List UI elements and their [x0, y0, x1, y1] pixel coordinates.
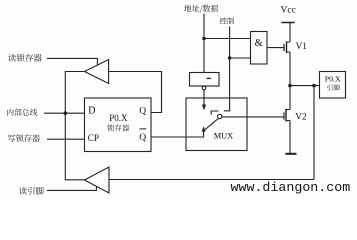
- ground bar: [285, 153, 296, 155]
- svg-text:V2: V2: [295, 113, 307, 123]
- inverter output bubble: [202, 86, 206, 90]
- wire pin branch down: [313, 86, 315, 180]
- power Vcc bar: [281, 22, 294, 24]
- wire Vcc to V1 drain: [289, 23, 291, 43]
- transistor V1 channel bar: [286, 41, 288, 53]
- wire internal bus vertical: [65, 72, 84, 180]
- svg-text:Vcc: Vcc: [281, 5, 296, 15]
- wire write-latch to CP: [47, 138, 85, 140]
- wire V1 source down to pin node: [289, 52, 291, 86]
- svg-text:P0.X: P0.X: [109, 113, 128, 123]
- pin box text 引脚: [327, 85, 339, 91]
- inverter dash symbol: [207, 77, 211, 79]
- wire B1 input from Q: [109, 72, 162, 113]
- mux switch lever: [205, 119, 218, 130]
- junction dot address branch: [202, 37, 206, 41]
- svg-text:Q: Q: [139, 107, 146, 117]
- inverter U2 box: [190, 73, 220, 87]
- label internal-bus 内部总线: [7, 109, 37, 116]
- junction dot control branch: [228, 56, 232, 60]
- buffer B1 read-latch (tri-state, points left): [85, 60, 109, 84]
- wire and output to V1 gate: [267, 47, 284, 49]
- transistor V2 stubs: [286, 110, 290, 121]
- svg-text:&: &: [255, 38, 263, 49]
- wire read-latch enable: [47, 58, 97, 65]
- svg-text:V1: V1: [296, 42, 308, 52]
- label read-pin 读引脚: [19, 187, 44, 195]
- svg-text:D: D: [88, 106, 95, 117]
- latch U1 box: [85, 98, 152, 152]
- wire address to AND gate: [204, 38, 251, 40]
- pin box P0.X: [320, 72, 346, 99]
- wire mux output to V2 gate: [222, 116, 284, 118]
- junction dot bus/D: [64, 111, 68, 115]
- mux switch arrow up: [202, 126, 206, 131]
- wire pin node to pin box: [290, 85, 320, 87]
- transistor V2 gate bar: [283, 112, 285, 119]
- transistor V2 channel bar: [285, 109, 287, 122]
- transistor V1 stubs: [287, 42, 291, 52]
- svg-text:www.diangon.com: www.diangon.com: [231, 180, 351, 195]
- mux U3 box: [186, 98, 247, 151]
- label write-latch 写锁存器: [8, 134, 40, 142]
- label read-latch 读锁存器: [8, 54, 42, 62]
- wire read-pin enable: [47, 186, 96, 190]
- svg-text:P0.X: P0.X: [325, 75, 341, 84]
- mux switch contact circle: [218, 114, 222, 118]
- svg-text:Q: Q: [139, 133, 146, 143]
- junction dot pin branch: [312, 84, 316, 88]
- wire V2 source to ground: [289, 121, 291, 154]
- label control 控制: [220, 17, 234, 24]
- wire control vertical into MUX select: [224, 27, 230, 111]
- wire address/data vertical: [203, 14, 205, 73]
- wire B2 input from pin: [109, 179, 314, 181]
- label address/data 地址/数据: [184, 5, 218, 13]
- transistor V1 gate bar: [283, 44, 285, 51]
- wire V2 drain up: [289, 86, 291, 110]
- junction dot V1/V2 node: [288, 84, 292, 88]
- buffer B2 read-pin (points left): [84, 167, 109, 193]
- and gate U4 box: [251, 32, 268, 65]
- latch title 锁存器: [107, 124, 129, 131]
- wire MUX select tick: [211, 111, 218, 115]
- wire internal-bus label to D: [44, 112, 85, 114]
- wire inverter to MUX input arrow: [203, 90, 205, 105]
- svg-text:CP: CP: [88, 133, 99, 143]
- wire control to AND gate: [230, 57, 251, 59]
- wire Qbar to MUX switch: [151, 130, 204, 137]
- svg-text:MUX: MUX: [214, 131, 234, 140]
